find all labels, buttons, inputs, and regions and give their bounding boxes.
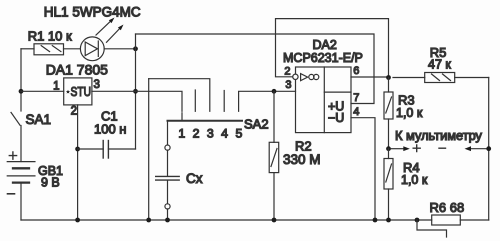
wire contact 3 elbow bbox=[149, 79, 210, 112]
svg-text:3: 3 bbox=[94, 79, 100, 91]
resistor R3 bbox=[384, 78, 393, 149]
svg-text:1: 1 bbox=[178, 127, 185, 141]
resistor R5 bbox=[393, 73, 489, 83]
wire bottom ground rail bbox=[21, 219, 432, 221]
capacitor Cx bbox=[156, 150, 180, 204]
node rail Cx bbox=[165, 218, 170, 223]
regulator DA1 7805 bbox=[64, 78, 92, 105]
node plus output bbox=[386, 146, 391, 151]
wire +5V top run to DA2 pin 7 bbox=[136, 34, 375, 104]
resistor R6 bbox=[432, 215, 489, 225]
svg-text:5: 5 bbox=[235, 127, 242, 141]
svg-text:47 к: 47 к bbox=[428, 57, 451, 71]
switch SA2 contact 4 bar bbox=[223, 91, 225, 112]
node +5V / DA1 out bbox=[133, 89, 138, 94]
capacitor C1 bbox=[78, 141, 136, 159]
node LED / +5V rail bbox=[133, 46, 138, 51]
svg-text:−U: −U bbox=[328, 111, 344, 125]
svg-text:HL1 5WPG4MC: HL1 5WPG4MC bbox=[44, 5, 141, 20]
svg-text:1: 1 bbox=[53, 81, 59, 93]
wire R1 left to left rail bbox=[21, 48, 34, 50]
svg-text:330 М: 330 М bbox=[283, 152, 321, 167]
switch SA2 wiper bar bbox=[168, 120, 243, 122]
node rail R6 bbox=[415, 218, 420, 223]
ground rail from SA2 contact 3 bbox=[148, 79, 150, 220]
svg-text:2: 2 bbox=[71, 105, 77, 117]
node rail R4 bbox=[386, 218, 391, 223]
wire left rail (battery+ node) bbox=[20, 49, 22, 111]
svg-text:2: 2 bbox=[284, 65, 290, 77]
svg-text:4: 4 bbox=[353, 106, 359, 118]
label minus multimeter bbox=[439, 147, 446, 149]
wire pin 2 feedback bbox=[276, 19, 389, 78]
svg-text:1,0 к: 1,0 к bbox=[396, 106, 423, 120]
wire contact 5 to DA2 pin 3 bbox=[239, 91, 296, 111]
wire DA1 pin2 ground drop bbox=[77, 105, 79, 220]
label minus battery bbox=[8, 193, 15, 195]
svg-text:SA1: SA1 bbox=[26, 112, 52, 127]
op-amp DA2 box bbox=[296, 67, 352, 133]
svg-text:Cх: Cх bbox=[186, 171, 203, 186]
wire pin 6 output bbox=[351, 76, 389, 78]
switch SA2 wiper contact 1 dash bbox=[181, 113, 183, 120]
node rail SA2 gnd bbox=[146, 218, 151, 223]
wire Cx bottom to rail bbox=[167, 209, 169, 220]
svg-text:9 В: 9 В bbox=[41, 176, 60, 190]
svg-text:DA1 7805: DA1 7805 bbox=[46, 62, 108, 78]
wire wiper to Cx terminal bbox=[167, 121, 169, 145]
arrow minus output bbox=[465, 146, 489, 151]
terminal Cx top bbox=[165, 145, 170, 150]
arrow plus output bbox=[391, 146, 410, 151]
svg-text:R1 10 к: R1 10 к bbox=[28, 29, 72, 44]
labels SA2 positions 1-5 bbox=[178, 127, 242, 141]
wire LED to +5V node bbox=[104, 48, 135, 50]
node rail DA1 gnd bbox=[75, 218, 80, 223]
inversion circle pin 2 bbox=[293, 74, 298, 79]
wire DA1 pin1 bbox=[21, 90, 64, 92]
wire pin 4 to rail bbox=[351, 118, 375, 220]
resistor R2 bbox=[269, 91, 279, 220]
LED HL1 bbox=[80, 18, 123, 61]
resistor R1 bbox=[34, 44, 64, 55]
svg-text:SA2: SA2 bbox=[244, 117, 269, 132]
switch SA2 contact 2 bar bbox=[194, 90, 196, 111]
node R2 tap bbox=[272, 89, 277, 94]
svg-text:3: 3 bbox=[285, 79, 291, 91]
wire output stub below R6 bbox=[417, 220, 447, 237]
battery GB1 bbox=[7, 162, 35, 220]
svg-text:2: 2 bbox=[193, 127, 200, 141]
svg-text:1,0 к: 1,0 к bbox=[401, 173, 428, 187]
wire right rail bbox=[488, 78, 490, 221]
svg-text:MCP6231-E/P: MCP6231-E/P bbox=[283, 51, 363, 65]
svg-text:6: 6 bbox=[353, 65, 359, 77]
wire R4 top bbox=[388, 149, 390, 159]
resistor R4 bbox=[384, 159, 393, 221]
svg-text:К мультиметру: К мультиметру bbox=[395, 128, 483, 143]
wire R1 to LED bbox=[64, 48, 81, 50]
wire DA1 pin3 output bbox=[92, 91, 182, 111]
node battery+ / DA1 in junction bbox=[19, 89, 24, 94]
svg-text:4: 4 bbox=[221, 127, 228, 141]
svg-text:7: 7 bbox=[353, 92, 359, 104]
svg-text:R6 68: R6 68 bbox=[430, 200, 465, 215]
svg-text:STU: STU bbox=[71, 84, 92, 99]
label plus battery bbox=[9, 152, 16, 159]
node minus tap bbox=[486, 146, 491, 151]
node output bbox=[386, 75, 391, 80]
terminal Cx bottom bbox=[165, 204, 170, 209]
node rail pin4 bbox=[373, 218, 378, 223]
svg-text:3: 3 bbox=[207, 127, 214, 141]
label plus multimeter bbox=[413, 145, 420, 152]
node C1 tap bbox=[75, 147, 80, 152]
node rail R2 bbox=[272, 218, 277, 223]
svg-text:100 н: 100 н bbox=[94, 122, 126, 137]
switch SA1 bbox=[11, 112, 21, 161]
wire +5V vertical rail bbox=[135, 34, 137, 149]
